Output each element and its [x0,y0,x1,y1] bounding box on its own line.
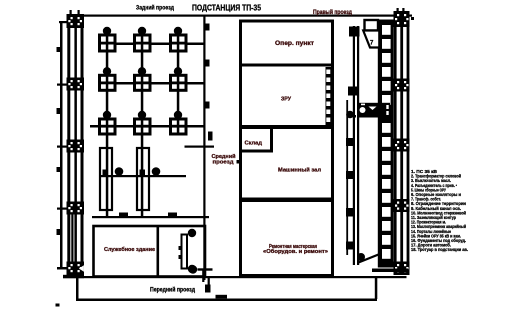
svg-text:Передний проезд: Передний проезд [150,287,195,294]
wire crossing line [185,146,215,148]
wire bottom boundary line [63,276,407,278]
node X brace left 5 [67,262,85,276]
breaker R3C3 [171,111,187,134]
wall building bottom thick [239,274,334,277]
breaker R3C2 [135,111,151,134]
wire tie 3 [57,146,67,148]
wire bottom road line [76,299,377,302]
breaker R1C1 [100,27,116,51]
wire right busbar rail 3 [407,11,410,275]
node tick L3 [57,167,61,172]
main building outline [241,21,333,276]
svg-text:Склад: Склад [245,141,263,147]
wire connector right [375,278,378,299]
wire corner top-left [59,21,69,23]
wire fence rail A [353,26,355,265]
node blob bay2 [140,170,146,176]
node tick road 3 [205,102,210,109]
wire bay cross line [99,175,186,177]
breaker R1C2 [135,27,151,51]
node circle bottom fence [357,253,365,261]
wire row line 3 [90,125,204,128]
svg-text:Правый проезд: Правый проезд [313,9,352,16]
wire fence rail B [357,26,359,265]
wire connector left [76,278,79,299]
breaker R1C3 [171,27,187,51]
node X brace right 5 [394,262,410,276]
wall service divider [157,226,160,277]
breaker R3C1 [100,111,116,134]
ladder structure [378,20,394,268]
node fence top [349,27,360,37]
wire right busbar rail 1 [394,11,397,275]
wire row line 1 [99,43,204,46]
transformer bay 2 [137,148,149,210]
wall room4/room5 thick [241,198,332,203]
wire tie 2 [57,84,67,86]
transformer bay 1 [100,148,112,210]
node dot bay2 [152,167,161,176]
svg-text:Машинный зал: Машинный зал [278,167,322,174]
flag funnel with 7 [363,31,379,48]
service building [94,226,206,277]
wire stub above left busbar [70,10,72,15]
wire thick bar bottom right [372,269,408,273]
node tick fence 5 [346,171,353,179]
wall room2/room3 thick [241,125,332,129]
breaker R2C3 [171,67,187,90]
node blob bay1 [103,170,109,176]
node X brace left 3 [67,140,85,153]
hatch strip room2 [326,67,332,125]
wire diagonal brace [359,254,382,263]
breaker R2C2 [135,67,151,90]
wire stubs above right busbar [397,8,399,12]
node dot bay1 [115,167,124,176]
wire thick base left [63,275,84,278]
svg-text:«Оборудов. и ремонт»: «Оборудов. и ремонт» [263,248,328,255]
node tick L4 [57,229,61,235]
wire left busbar rail 1 [67,14,70,270]
node X brace right 1 [394,11,410,27]
wire column 1 stem [106,50,109,217]
wire thin fence line [346,100,348,255]
wire tie 4 [57,208,67,210]
legend text block [411,169,468,252]
node X brace left 1 [67,14,85,28]
wire left boundary [60,21,63,267]
flag marker box [365,20,379,31]
wire right busbar rail 2 [400,11,403,275]
wall storeroom right [270,127,273,151]
wire left busbar rail 2 [74,14,77,270]
wire row line 2 [99,82,204,85]
node X brace right 2 [394,79,410,92]
svg-text:проезд: проезд [213,160,235,166]
node tick L1 [57,47,61,52]
switch symbol in service yard [179,229,197,273]
breaker R2C1 [100,67,116,90]
node tick L2 [57,108,61,114]
node dash bottom left [56,304,60,307]
node tick lower 1 [119,213,128,217]
wire column 2 stem [141,50,144,217]
svg-text:Опер. пункт: Опер. пункт [275,41,314,47]
node tick road 4 [208,132,213,141]
svg-text:ЗРУ: ЗРУ [281,97,292,103]
transformer box [357,103,390,118]
node blob fence 3 [346,111,356,119]
node tick fence 6 [346,208,354,217]
node X brace left 2 [67,78,85,91]
wire lower tie line [92,216,209,218]
svg-text:Задний проезд: Задний проезд [136,4,174,12]
node tick road 2 [205,60,210,67]
wire left busbar rail 4 lower [71,213,73,270]
wire left busbar rail 3 [81,14,84,270]
wall storeroom bottom [241,150,273,153]
wire top road line [68,15,412,17]
node nub building wall [237,160,240,164]
svg-text:18. Тротуар в подстанции ав.: 18. Тротуар в подстанции ав. [411,247,468,252]
wire column 3 stem [177,50,180,134]
node X brace left 4 [67,202,85,215]
svg-text:ПОДСТАНЦИЯ ТП-35: ПОДСТАНЦИЯ ТП-35 [192,4,261,13]
node tick fence 4 [346,138,353,146]
gate assembly bottom center [189,265,213,292]
node tick road 1 [205,24,210,31]
svg-text:Служебное здание: Служебное здание [104,246,155,253]
node X brace right 4 [394,199,410,212]
wire tie 5 [57,267,67,270]
node tick lower 2 [168,213,177,217]
node tick fence 7 [346,242,354,250]
node fence 2 [348,87,359,96]
node blob bottom road [216,295,228,299]
node nub top right [411,17,414,20]
wall room1/room2 [241,64,332,67]
node X brace right 3 [394,139,410,152]
wire middle road line [203,15,205,280]
